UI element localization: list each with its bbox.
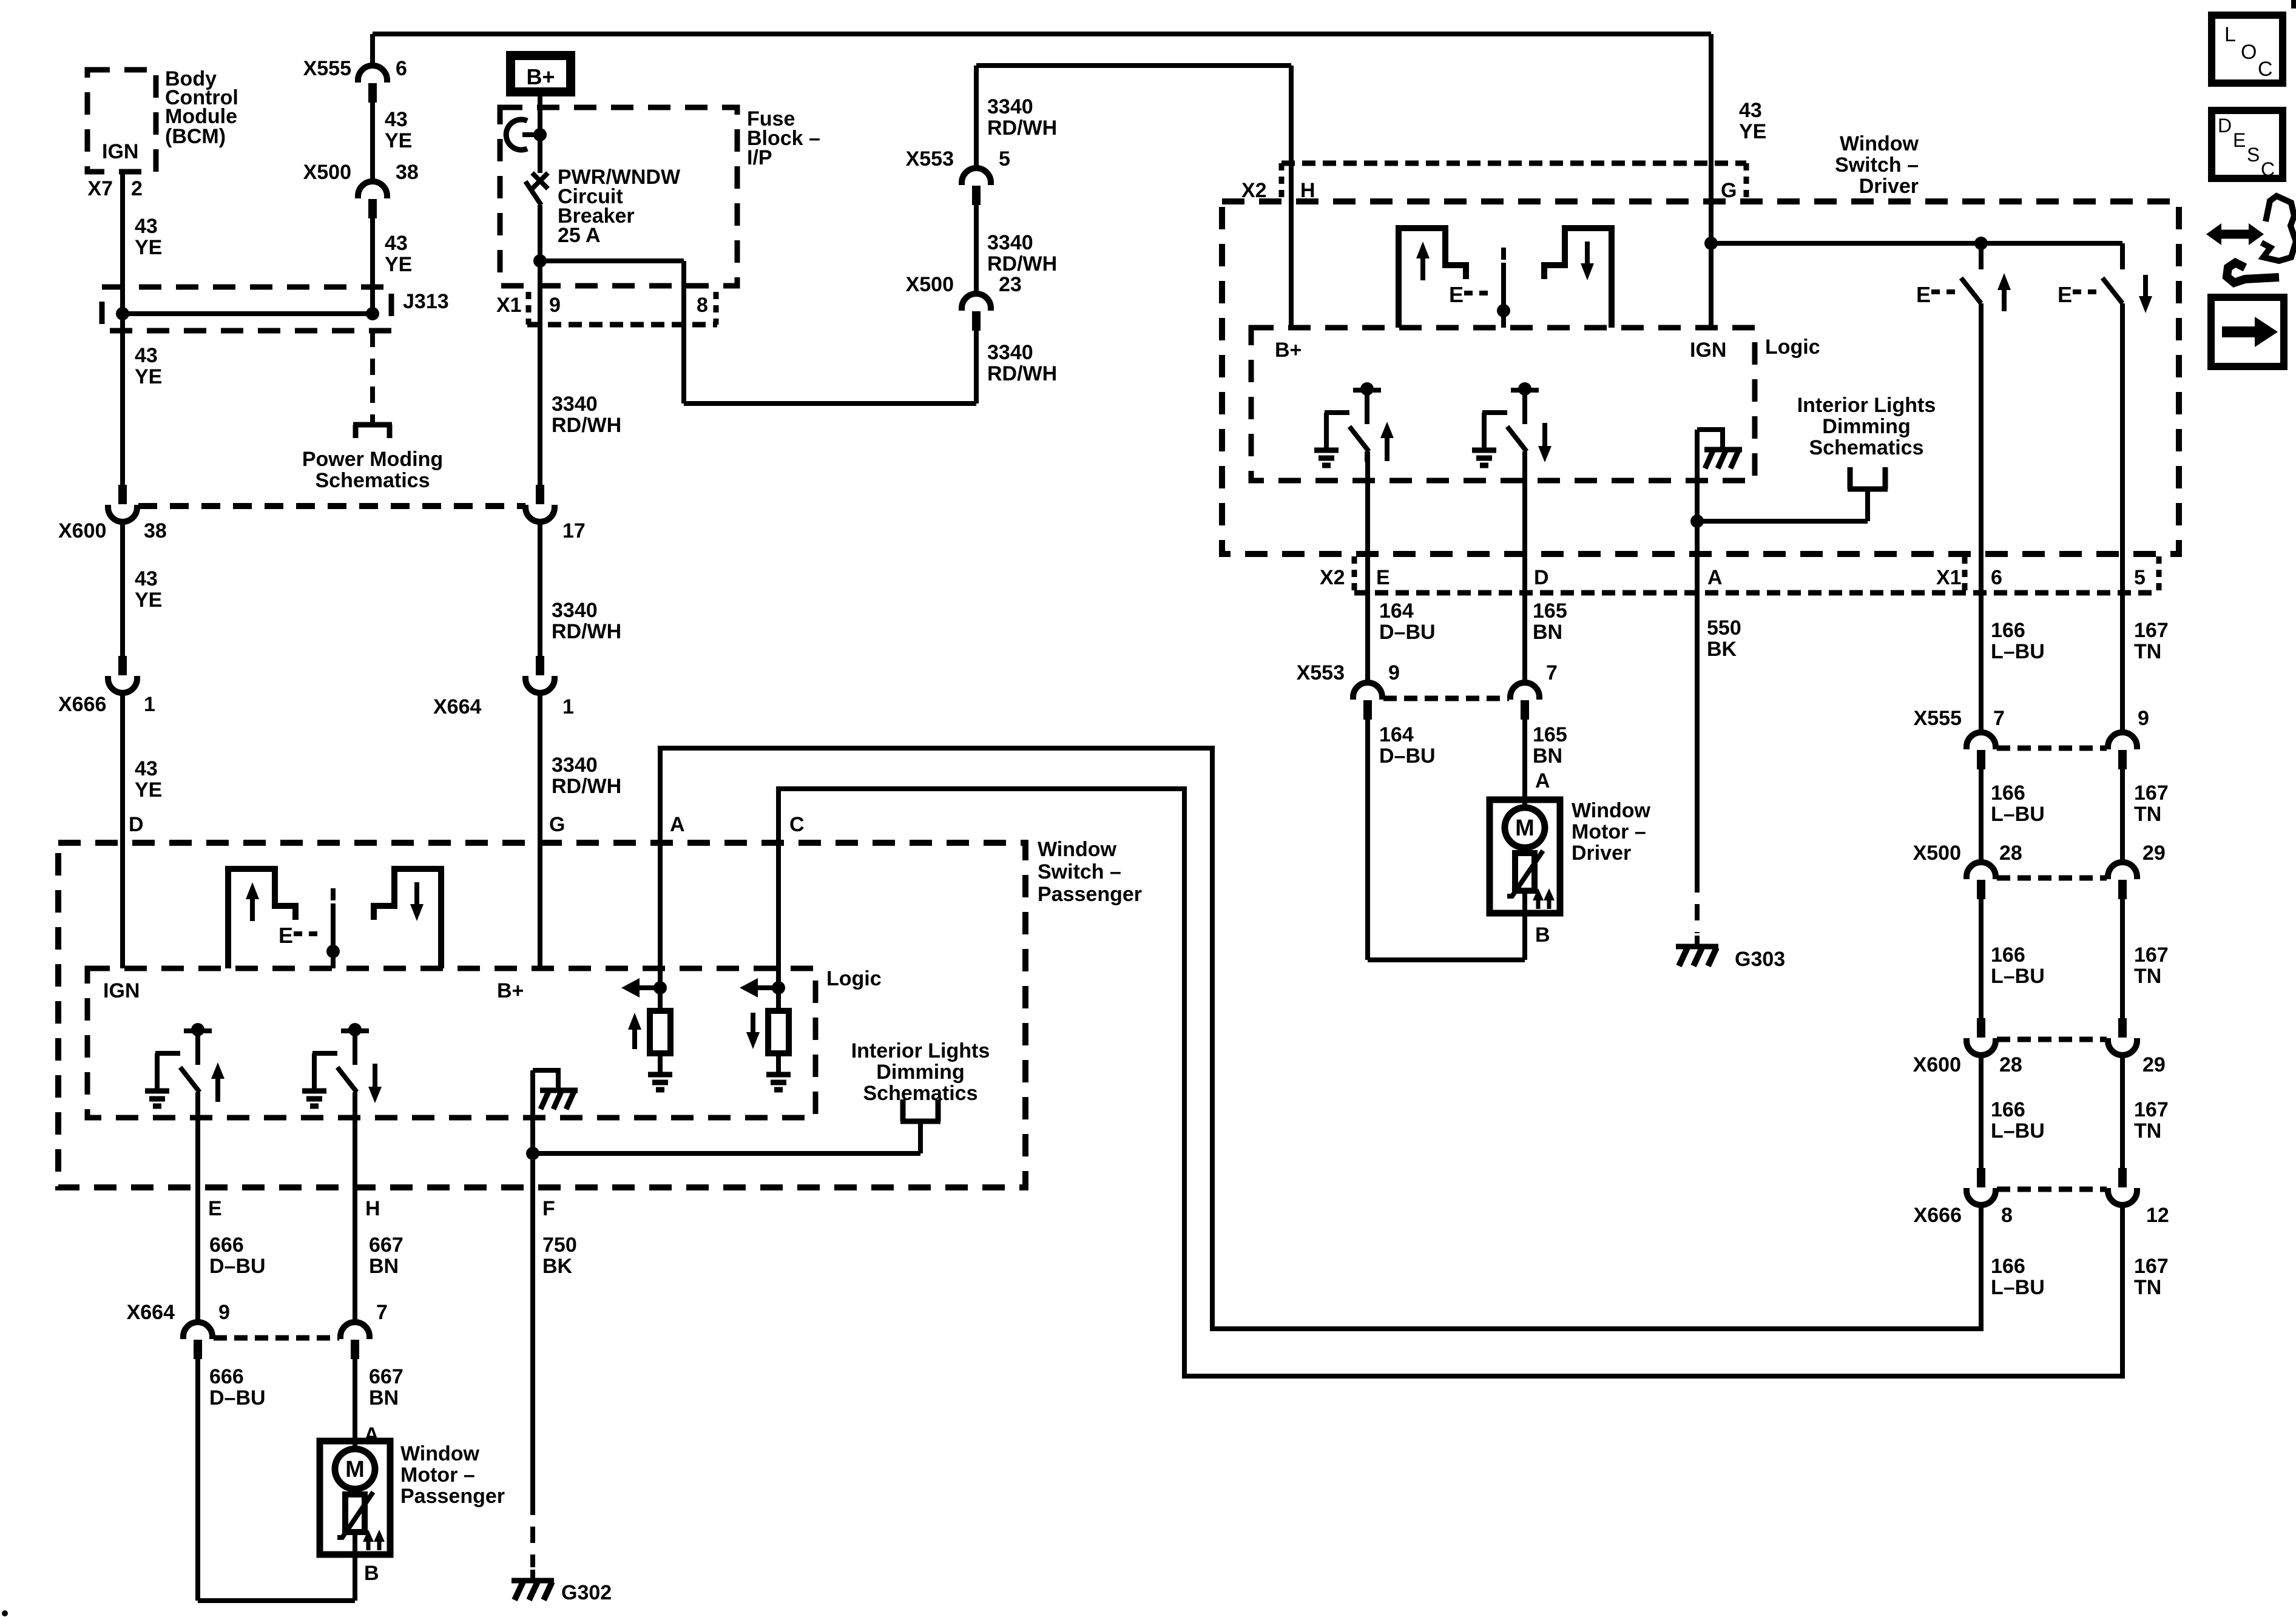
svg-text:3340: 3340 [552,754,598,777]
svg-text:L–BU: L–BU [1991,1276,2045,1299]
svg-text:25 A: 25 A [558,224,601,247]
passenger logic up resistor branch [621,978,672,1090]
svg-text:X500: X500 [1913,842,1961,865]
connector X664 pin 1 [525,656,555,693]
connector X600 pin 29 [2108,1018,2137,1055]
connector X500 pin 38 [358,181,387,218]
junction at J313 left [116,307,129,320]
svg-text:RD/WH: RD/WH [987,252,1057,275]
svg-text:1: 1 [144,693,155,716]
svg-text:Motor –: Motor – [1572,820,1646,843]
reference fork: Power Moding Schematics [353,416,392,438]
connector X600 pin 28 [1967,1018,1996,1055]
svg-text:166: 166 [1991,781,2025,805]
svg-text:550: 550 [1707,616,1741,640]
wire: drop into driver switch pin H [1289,66,1294,328]
dashed stub from J313 to Power Moding Schematics [370,331,375,416]
passenger switch rocker pivot E [279,888,340,968]
svg-text:165: 165 [1533,599,1567,623]
svg-text:Window: Window [1572,799,1651,822]
svg-text:29: 29 [2142,1053,2166,1076]
svg-text:X600: X600 [58,519,106,542]
svg-text:X1: X1 [496,294,522,317]
svg-text:(BCM): (BCM) [165,125,226,148]
svg-text:BK: BK [1707,638,1737,661]
svg-text:IGN: IGN [102,140,138,163]
svg-text:5: 5 [2134,566,2146,589]
wire: 166 output from up switch to X1-6 [1979,303,1984,554]
Fuse Block - I/P dashed box [500,107,737,286]
driver logic down ground switch [1472,382,1551,465]
svg-text:BN: BN [1533,744,1562,768]
svg-text:Power Moding: Power Moding [302,448,443,471]
wire: 3340 RD/WH rail to driver switch pin H [974,66,979,169]
wire: to interior lights dimming fork [1697,519,1868,524]
connector X600 pin 17 (fuse block feed) [525,485,555,522]
svg-text:167: 167 [2134,1255,2169,1278]
window motor - driver [1490,800,1560,913]
Window Switch - Passenger outer dashed box [58,843,1025,1187]
svg-text:L–BU: L–BU [1991,640,2045,663]
wire: 43 YE drop into driver switch pin G [1709,34,1714,328]
icon: LOC box [2212,15,2283,83]
svg-text:C: C [2261,158,2275,180]
svg-text:2: 2 [131,177,143,200]
svg-text:X7: X7 [87,177,113,200]
svg-text:C: C [789,813,805,836]
connector X664 pin 7 [340,1322,370,1359]
passenger logic up ground switch [145,1023,225,1106]
svg-text:28: 28 [1999,1053,2022,1076]
wire: 3340 RD/WH rise to X500-23 [974,331,979,403]
svg-text:166: 166 [1991,1255,2025,1278]
svg-text:166: 166 [1991,619,2025,642]
connector face X2 at top of driver window switch [1241,163,1746,202]
wire: B+ into circuit breaker [538,96,542,173]
svg-text:667: 667 [369,1234,403,1257]
circuit breaker PWR/WNDW 25 A [506,120,548,205]
svg-text:Dimming: Dimming [876,1061,964,1084]
svg-text:L–BU: L–BU [1991,965,2045,988]
wire: 43 YE between X555-6 and X500-38 [370,103,375,183]
svg-text:A: A [670,813,685,836]
svg-text:28: 28 [1999,842,2022,865]
svg-text:I/P: I/P [747,146,772,169]
svg-text:A: A [1535,769,1550,792]
svg-text:164: 164 [1379,599,1414,623]
passenger switch down rocker [374,869,441,968]
svg-text:3340: 3340 [552,599,598,622]
connector X600 pin 38 [108,485,137,522]
wire: passenger up output E [195,1092,200,1323]
svg-text:7: 7 [1993,707,2005,730]
svg-text:9: 9 [218,1301,230,1324]
svg-text:43: 43 [135,567,158,590]
svg-text:Motor –: Motor – [400,1463,475,1487]
connector face line X555 [1997,746,2107,751]
svg-text:RD/WH: RD/WH [987,362,1057,385]
svg-text:X2: X2 [1320,566,1345,589]
svg-text:38: 38 [144,519,167,542]
svg-text:Passenger: Passenger [1038,883,1142,906]
svg-text:X664: X664 [127,1301,175,1324]
svg-text:29: 29 [2142,842,2166,865]
Window Switch - Driver outer dashed box [1222,201,2179,554]
driver switch Logic dashed box [1251,328,1755,481]
svg-text:6: 6 [1991,566,2002,589]
wire: 166 L-BU between X500-28 and X600-28 [1979,899,1984,1018]
svg-text:1: 1 [562,695,574,718]
driver switch up rocker [1399,228,1466,328]
svg-text:3340: 3340 [987,231,1033,254]
svg-text:38: 38 [396,161,419,184]
svg-text:Dimming: Dimming [1822,415,1910,438]
svg-text:Passenger: Passenger [400,1485,505,1508]
svg-text:RD/WH: RD/WH [987,116,1057,140]
driver switch down rocker [1544,228,1612,328]
svg-text:E: E [1449,282,1464,307]
connector X553 pin 7 [1510,683,1539,720]
wire: 167 TN between X555-9 and X500-29 [2120,769,2125,863]
connector X555 pin 9 [2108,732,2137,769]
svg-text:167: 167 [2134,619,2169,642]
wire: 165 BN from X553-7 to driver motor pin A [1522,720,1527,800]
wire: 166 L-BU between X600-28 and X666-8 [1979,1054,1984,1168]
wire: node to fuse block pin 8 [540,258,684,263]
svg-text:G303: G303 [1735,948,1785,971]
svg-text:E: E [279,923,293,948]
svg-text:C: C [2258,58,2273,81]
svg-text:166: 166 [1991,1098,2025,1121]
svg-text:D–BU: D–BU [1379,744,1436,768]
passenger logic down ground switch [302,1023,382,1106]
svg-text:X500: X500 [303,161,351,184]
svg-text:TN: TN [2134,640,2161,663]
driver switch rocker pivot E [1449,248,1510,328]
svg-text:Logic: Logic [826,967,882,990]
splice J313 dashed box [102,287,391,331]
wire: splice bus inside J313 [123,311,373,316]
passenger logic down resistor branch [740,978,791,1090]
svg-text:E: E [1916,282,1931,307]
svg-text:O: O [2241,41,2257,64]
svg-text:L–BU: L–BU [1991,1119,2045,1143]
connector X555 pin 7 [1967,732,1996,769]
svg-text:164: 164 [1379,723,1414,746]
svg-text:F: F [542,1197,555,1220]
junction to interior lights dimming [1690,515,1704,528]
driver switch IGN bus junction [1704,237,1718,250]
svg-text:M: M [345,1457,365,1482]
svg-text:5: 5 [999,147,1010,170]
page mark top-right [2291,0,2296,8]
wire: passenger switch ground pin F [530,1070,535,1499]
connector face line X500 [1997,876,2107,881]
svg-text:Interior Lights: Interior Lights [851,1039,990,1062]
svg-text:165: 165 [1533,723,1567,746]
svg-text:6: 6 [396,57,407,80]
svg-text:BK: BK [542,1255,573,1278]
svg-text:YE: YE [135,365,162,388]
driver logic up ground switch [1314,382,1394,465]
wire: 43 YE from X600-38 down to X666-1 [120,521,125,656]
connector face line X600 [138,503,525,509]
wire: 166 L-BU X1-6 to X555-7 [1979,554,1984,734]
connector face X1 of fuse block [496,292,717,325]
svg-text:X664: X664 [433,695,481,718]
wire: 43 YE from BCM IGN down to splice J313 [120,172,125,314]
wire: 164 D-BU from X553-9 to driver motor loop [1365,720,1370,960]
svg-text:D–BU: D–BU [209,1386,266,1409]
connector X553 pin 5 [962,168,991,205]
svg-text:3340: 3340 [987,95,1033,118]
svg-text:M: M [1515,815,1535,841]
driver down output switch E-blade [2058,243,2152,313]
connector X553 pin 9 [1353,683,1382,720]
svg-text:X600: X600 [1913,1053,1961,1076]
svg-text:43: 43 [1739,99,1762,122]
svg-text:YE: YE [385,253,412,276]
junction below breaker [533,254,547,268]
connector X500 pin 23 [962,294,991,331]
svg-text:X553: X553 [1297,661,1345,684]
svg-text:Driver: Driver [1859,175,1919,198]
wire: passenger down output H [353,1092,357,1323]
passenger switch Logic dashed box [87,968,815,1118]
wire: passenger motor return loop bottom [198,1598,355,1603]
wire: 167 TN between X500-29 and X600-29 [2120,899,2125,1018]
svg-text:D: D [129,813,144,836]
wire: driver down output D through X2 [1522,451,1527,684]
svg-text:667: 667 [369,1365,403,1388]
wire: top 43 YE rail from X555-6 to driver switch pin G [373,32,1711,36]
svg-text:Logic: Logic [1765,336,1820,359]
wire: 3340 RD/WH from X1-9 down to X600-17 [538,261,542,485]
svg-text:E: E [2233,129,2246,151]
svg-text:7: 7 [376,1301,388,1324]
svg-text:Interior Lights: Interior Lights [1797,394,1936,417]
svg-text:Switch –: Switch – [1835,154,1919,177]
svg-text:YE: YE [135,778,162,802]
wire: 550 BK dashed tail to G303 [1695,876,1700,933]
svg-text:167: 167 [2134,1098,2169,1121]
wire: up to driver motor pin B [1522,913,1527,960]
junction at J313 right [366,307,379,320]
svg-text:H: H [365,1197,380,1220]
svg-text:RD/WH: RD/WH [552,620,621,643]
svg-text:666: 666 [209,1234,244,1257]
svg-text:D: D [1534,566,1549,589]
wire: motor return loop bottom [1368,957,1525,962]
wire: 750 BK dashed tail to G302 [530,1499,535,1567]
passenger logic internal ground hook [533,1070,578,1109]
connector X666 pin 1 [108,656,137,693]
svg-text:BN: BN [1533,621,1562,644]
junction to interior lights dimming [526,1147,539,1160]
reference fork: Interior Lights Dimming Schematics (passenger) [900,1099,940,1153]
svg-text:8: 8 [697,294,708,317]
svg-text:8: 8 [2001,1204,2013,1227]
wire: 43 YE drop to X555 pin 6 [370,34,375,67]
connector X666 pin 12 [2108,1168,2137,1205]
connector face line X553 [1383,696,1509,701]
svg-text:S: S [2247,144,2260,166]
icon: adjust hand with wrench [2206,196,2296,283]
svg-text:X1: X1 [1936,566,1962,589]
svg-text:43: 43 [385,108,408,131]
svg-text:Schematics: Schematics [863,1082,978,1105]
page mark bottom-left [2,1610,8,1616]
wire: 3340 RD/WH between X500-23 and X553-5 [974,205,979,295]
junction for up contact [1974,237,1988,250]
passenger switch up rocker [228,869,295,968]
wire: pin 8 drop [681,261,686,403]
svg-text:TN: TN [2134,803,2161,826]
svg-text:B: B [364,1562,379,1585]
svg-text:3340: 3340 [987,341,1033,364]
svg-text:Window: Window [1840,132,1919,155]
connector X555 pin 6 [358,66,387,103]
svg-text:X555: X555 [303,57,351,80]
svg-text:750: 750 [542,1234,577,1257]
svg-text:Driver: Driver [1572,842,1631,865]
svg-text:23: 23 [999,273,1022,296]
svg-text:BN: BN [369,1386,399,1409]
wire: breaker output to node [538,205,542,261]
wire: 166 L-BU route to passenger switch pin A [660,748,1981,1329]
svg-text:43: 43 [135,757,158,780]
wire: to interior lights dimming fork [533,1151,920,1156]
svg-text:666: 666 [209,1365,244,1388]
svg-text:BN: BN [369,1255,399,1278]
wire: up to passenger motor pin B [353,1555,357,1601]
svg-text:3340: 3340 [552,393,598,416]
svg-text:167: 167 [2134,944,2169,967]
svg-text:X553: X553 [906,147,954,170]
svg-text:9: 9 [1388,661,1400,684]
wire: 167 TN X1-5 to X555-9 [2120,554,2125,734]
wire: 667 BN from X664-7 to passenger motor pin A [353,1359,357,1441]
svg-text:RD/WH: RD/WH [552,775,621,798]
wire: 167 TN between X600-29 and X666-12 [2120,1054,2125,1168]
svg-text:Switch –: Switch – [1038,860,1121,883]
svg-text:X666: X666 [1914,1204,1962,1227]
connector X666 pin 8 [1967,1168,1996,1205]
svg-text:7: 7 [1546,661,1558,684]
svg-text:X666: X666 [58,693,106,716]
svg-text:G: G [549,813,565,836]
svg-text:Window: Window [1038,838,1117,861]
icon: DESC box [2212,110,2283,180]
svg-text:166: 166 [1991,944,2025,967]
wire: 43 YE from X666-1 down to passenger switch pin D [120,692,125,968]
wire: 43 YE from X500-38 down to splice J313 [370,218,375,314]
svg-text:43: 43 [385,232,408,255]
svg-text:B+: B+ [1275,339,1302,362]
svg-text:Schematics: Schematics [1809,436,1924,459]
wire: 166 L-BU between X555-7 and X500-28 [1979,769,1984,863]
wire: 666 D-BU from X664-9 to passenger motor loop [195,1359,200,1601]
svg-text:YE: YE [135,236,162,259]
svg-text:43: 43 [135,344,158,367]
svg-text:Window: Window [400,1442,480,1465]
svg-text:TN: TN [2134,1119,2161,1143]
svg-text:D: D [2218,115,2232,137]
svg-text:L–BU: L–BU [1991,803,2045,826]
svg-text:YE: YE [1739,120,1766,143]
svg-text:9: 9 [549,294,561,317]
connector face line X666 [1997,1187,2107,1192]
wire: fuse pin 8 run to X500-23 [684,401,976,406]
svg-text:J313: J313 [403,290,449,313]
wire: driver switch ground pin A [1695,430,1700,876]
Body Control Module (BCM) dashed box [87,70,156,172]
driver logic internal ground hook [1697,430,1742,468]
svg-text:12: 12 [2146,1204,2169,1227]
svg-text:E: E [2058,282,2072,307]
connector X500 pin 29 [2108,862,2137,899]
svg-text:E: E [208,1197,222,1220]
svg-text:X500: X500 [906,273,954,296]
wire: 43 YE from J313 down to X600-38 [120,314,125,485]
connector X664 pin 9 [183,1322,212,1359]
icon: arrow box [2211,297,2284,366]
wire: 167 TN route to passenger switch pin C [778,789,2122,1376]
svg-text:Schematics: Schematics [316,469,430,492]
wire: 3340 RD/WH from X664-1 down to passenger switch pin G [538,692,542,968]
svg-text:E: E [1376,566,1390,589]
svg-text:TN: TN [2134,965,2161,988]
svg-text:167: 167 [2134,781,2169,805]
svg-text:B: B [1535,923,1550,947]
wire: 3340 RD/WH from X600-17 to X664-1 [538,521,542,656]
ground G303 [1676,936,1718,966]
svg-text:L: L [2224,23,2236,46]
svg-text:B+: B+ [526,64,555,89]
svg-text:D–BU: D–BU [209,1255,266,1278]
battery feed symbol B+ [506,51,575,96]
connector X500 pin 28 [1967,862,1996,899]
svg-text:G302: G302 [561,1581,612,1604]
connector face line X600 [1997,1037,2107,1042]
svg-text:9: 9 [2138,707,2149,730]
svg-text:YE: YE [385,129,412,152]
svg-text:YE: YE [135,589,162,612]
connector face line X664 [214,1335,339,1341]
svg-text:IGN: IGN [103,979,140,1002]
wire: IGN bus to window up/down contacts [1711,241,2122,246]
svg-text:43: 43 [135,215,158,238]
svg-text:X555: X555 [1914,707,1962,730]
wire: driver up output E through X2 [1365,451,1370,684]
svg-text:A: A [1707,566,1723,589]
svg-text:D–BU: D–BU [1379,621,1436,644]
window motor - passenger [320,1441,390,1555]
wire: 167 output from down switch to X1-5 [2120,303,2125,554]
driver up output switch E-blade [1916,243,2011,311]
connector face X2/X1 at bottom of driver window switch [1320,556,2159,593]
ground G302 [512,1570,554,1600]
svg-text:TN: TN [2134,1276,2161,1299]
svg-text:17: 17 [562,519,586,542]
svg-text:B+: B+ [497,979,524,1002]
svg-text:RD/WH: RD/WH [552,414,621,437]
svg-text:IGN: IGN [1690,339,1726,362]
reference fork: Interior Lights Dimming Schematics (driver) [1848,467,1888,521]
